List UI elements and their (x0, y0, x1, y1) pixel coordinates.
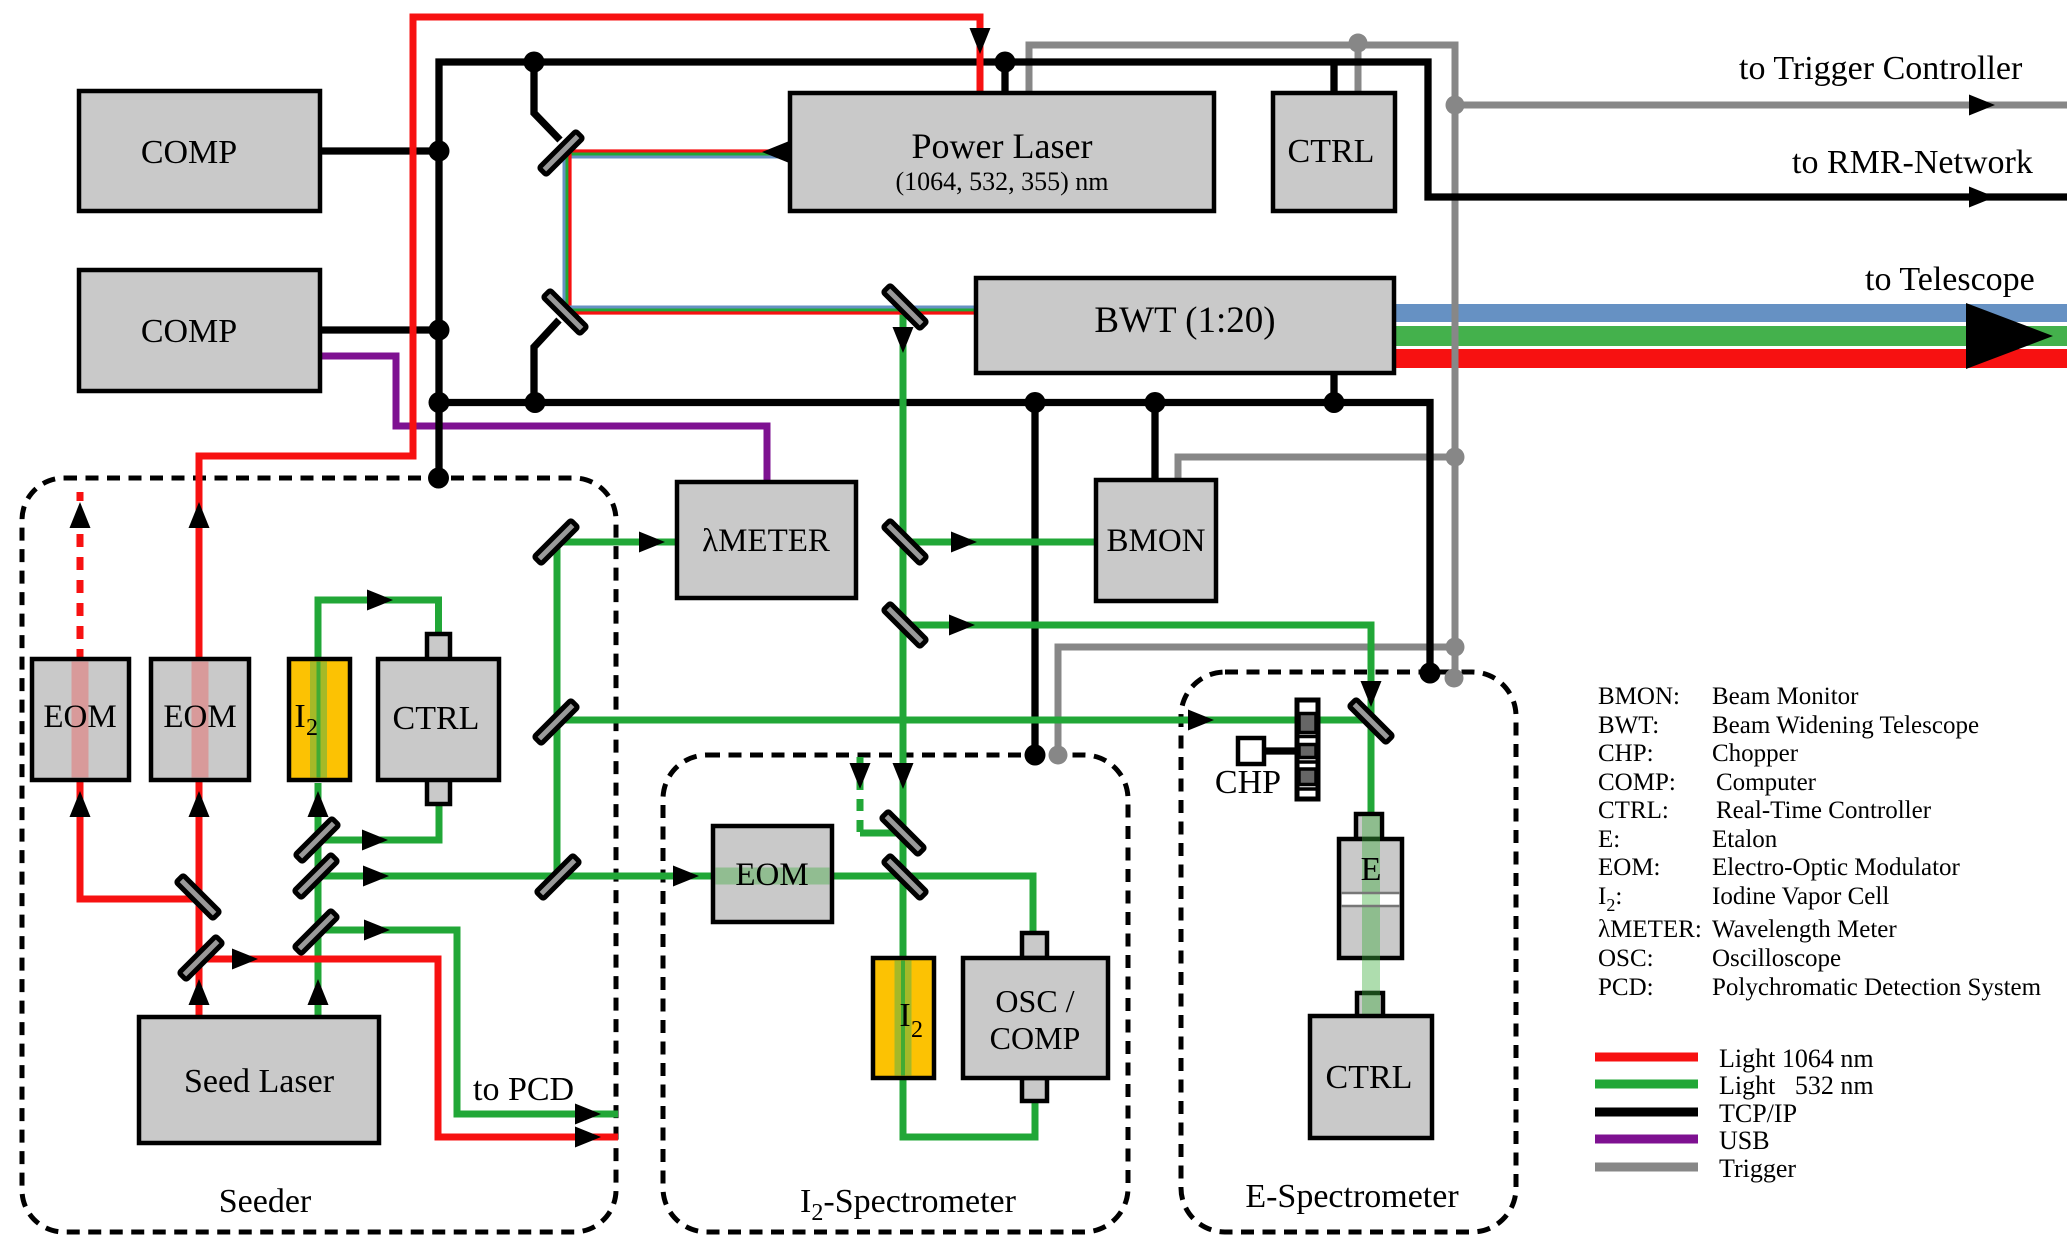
svg-text:Wavelength Meter: Wavelength Meter (1712, 916, 1897, 943)
svg-text:COMP:: COMP: (1598, 769, 1676, 796)
big arrow to Telescope (1966, 303, 2053, 369)
mirror M2 power laser lower (543, 290, 587, 334)
junction lower bus left (429, 392, 450, 413)
svg-text:COMP: COMP (141, 313, 237, 350)
beam bundle green top (562, 153, 790, 156)
TCP/IP main bus (439, 62, 2067, 480)
arrow down into I2-Spectrometer solid (893, 763, 914, 789)
svg-text:TCP/IP: TCP/IP (1719, 1099, 1797, 1128)
arrow down into I2-Spectrometer dashed (850, 763, 871, 789)
green beam BWT mirror down to I2 cell (900, 308, 907, 965)
CTRL seeder box with tabs (378, 634, 499, 804)
svg-text:EOM: EOM (163, 699, 236, 735)
beam to Telescope green band (1394, 326, 2067, 346)
junction COMP2 on bus (429, 320, 450, 341)
wire stub I2-Spectrometer (1031, 402, 1038, 757)
arrow red up to leave seeder (189, 502, 210, 528)
green beam to E-Spectrometer etalon line (905, 625, 1371, 722)
arrow up green from Seed Laser (308, 979, 329, 1005)
svg-text:Beam Monitor: Beam Monitor (1712, 683, 1859, 710)
mirror M1 power laser upper (539, 131, 583, 175)
USB wire COMP2 to lambdaMETER (320, 356, 767, 485)
mirror M4 BMON pickoff (883, 520, 927, 564)
arrow right red PCD line (232, 949, 258, 970)
beam bundle green riser (566, 151, 569, 311)
green beam to E-Spectrometer chopper (556, 720, 1371, 818)
arrow right into BMON (951, 532, 977, 553)
Seeder dashed enclosure (22, 478, 616, 1232)
svg-text:Oscilloscope: Oscilloscope (1712, 945, 1841, 972)
wire COMP1 to bus (320, 147, 439, 154)
svg-text:Power Laser: Power Laser (912, 126, 1093, 166)
svg-text:(1064, 532, 355) nm: (1064, 532, 355) nm (895, 167, 1108, 196)
arrow right to RMR-Network (1969, 187, 1995, 208)
I2 iodine cell spectrometer (873, 958, 934, 1078)
mirror M16 E-Spectrometer (1349, 699, 1393, 743)
svg-text:OSC /: OSC / (995, 983, 1074, 1019)
arrow down into Power Laser (970, 28, 991, 54)
junction trigger to BMON (1446, 448, 1465, 467)
mirror M9 seeder CTRL pickoff (295, 818, 339, 862)
BMON box (1096, 480, 1216, 601)
mirror M14 I2-Spectrometer upper (881, 811, 925, 855)
svg-text:2: 2 (911, 1017, 923, 1043)
wire stub BWT (1330, 370, 1337, 402)
svg-text:USB: USB (1719, 1126, 1770, 1155)
mirror M6 lambdaMETER feed (534, 520, 578, 564)
mirror M7 E-Spectrometer feed (534, 700, 578, 744)
Seed Laser box (139, 1017, 379, 1143)
svg-text:to Telescope: to Telescope (1865, 261, 2035, 298)
beam bundle blue top (562, 156, 790, 159)
green I2 cell to OSC/COMP bottom (903, 1075, 1035, 1137)
node trigger at E-Spectrometer border (1445, 669, 1464, 688)
arrow right red to PCD (575, 1127, 601, 1148)
green stub dashed pickoff to mirror (860, 830, 897, 837)
mirror M3 BWT pickoff (883, 285, 927, 329)
beam bundle green into BWT (564, 309, 976, 312)
svg-text:I: I (294, 698, 305, 735)
trigger wire stub into CTRL (1355, 43, 1362, 95)
svg-text:Trigger: Trigger (1719, 1154, 1796, 1183)
svg-text:to RMR-Network: to RMR-Network (1792, 144, 2033, 181)
svg-text:Polychromatic Detection System: Polychromatic Detection System (1712, 974, 2042, 1001)
red seed laser vertical (196, 779, 203, 1020)
EOM2 box (151, 659, 249, 780)
svg-text:BMON:: BMON: (1598, 683, 1680, 710)
link CHP motor to wheel (1264, 747, 1302, 754)
red mirror to EOM1 (80, 779, 199, 899)
mirror M8 riser bottom (536, 855, 580, 899)
CTRL top box (1273, 93, 1395, 211)
E-Spectrometer dashed enclosure (1181, 672, 1516, 1232)
arrow right on E-line (949, 615, 975, 636)
green dashed pickoff in I2-Spectrometer (857, 757, 864, 833)
green I2 cell top to CTRL top (318, 600, 439, 662)
computer COMP2 (79, 270, 320, 391)
svg-text:OSC:: OSC: (1598, 945, 1654, 972)
green riser between mirrors (554, 545, 561, 876)
junction mirror M1 mount on bus (524, 52, 545, 73)
trigger wire branch to BMON (1178, 457, 1455, 484)
arrow right green main line (363, 866, 389, 887)
svg-text:Iodine Vapor Cell: Iodine Vapor Cell (1712, 883, 1889, 910)
svg-text:Etalon: Etalon (1712, 826, 1778, 853)
green beam into lambdaMETER (556, 539, 680, 546)
arrow right green PCD line (364, 920, 390, 941)
chopper wheel (1297, 700, 1318, 799)
svg-text:BWT:: BWT: (1598, 712, 1659, 739)
mirror M15 I2-Spectrometer lower (883, 855, 927, 899)
green mirror to CTRL bottom (317, 798, 439, 840)
arrow right green CTRL top line (367, 590, 393, 611)
svg-text:Seeder: Seeder (219, 1183, 312, 1220)
arrow into mirror M1 from Power Laser (762, 142, 788, 163)
svg-text:Chopper: Chopper (1712, 740, 1799, 767)
svg-text:CTRL: CTRL (393, 700, 480, 737)
green long beam to I2-Spectrometer EOM (316, 873, 714, 880)
arrow right into I2-Spectrometer EOM (673, 866, 699, 887)
svg-text:EOM: EOM (735, 857, 808, 893)
node TCP/IP at I2-Spectrometer border (1025, 745, 1046, 766)
junction mirror M2 mount on lower bus (525, 392, 546, 413)
beam bundle blue riser (563, 151, 566, 311)
lambdaMETER box (677, 482, 856, 598)
svg-text:E-Spectrometer: E-Spectrometer (1245, 1178, 1459, 1215)
svg-text:CTRL: CTRL (1288, 133, 1375, 170)
wire COMP2 to bus (320, 326, 439, 333)
beam to Telescope red band (1394, 349, 2067, 368)
etalon E with tab (1339, 814, 1402, 991)
mirror M13 red PCD pickoff (179, 936, 223, 980)
EOM I2-Spectrometer (713, 826, 832, 922)
svg-text:to Trigger Controller: to Trigger Controller (1739, 50, 2023, 87)
BWT box (976, 278, 1394, 373)
arrow right to Trigger Controller (1969, 95, 1995, 116)
computer COMP1 (79, 91, 320, 211)
beam bundle red into BWT (564, 311, 976, 314)
mirror M12 red to EOM1 (176, 875, 220, 919)
beam to Telescope blue band (1394, 304, 2067, 322)
legend abbreviation list (1598, 683, 2042, 1001)
junction trigger to I2-Spectrometer (1446, 638, 1465, 657)
arrow up into seeder I2 (308, 791, 329, 817)
arrow up red from Seed Laser (189, 979, 210, 1005)
svg-text:E:: E: (1598, 826, 1620, 853)
svg-text:PCD:: PCD: (1598, 974, 1654, 1001)
svg-text:λMETER: λMETER (702, 523, 830, 559)
I2 iodine cell seeder (289, 659, 350, 780)
red beam to PCD (201, 959, 618, 1137)
beam bundle red riser (568, 151, 571, 311)
svg-text:COMP: COMP (141, 134, 237, 171)
svg-text:Electro-Optic Modulator: Electro-Optic Modulator (1712, 854, 1961, 881)
arrow right into E-Spectrometer (1188, 710, 1214, 731)
junction trigger at CTRL (1349, 34, 1368, 53)
svg-text:BMON: BMON (1106, 523, 1205, 559)
red seed to EOM2 and Power Laser (199, 17, 980, 662)
svg-text:Light 1064 nm: Light 1064 nm (1719, 1044, 1874, 1073)
svg-text:Real-Time Controller: Real-Time Controller (1716, 797, 1932, 824)
junction COMP1 on bus (429, 141, 450, 162)
node trigger at I2-Spectrometer border (1049, 746, 1068, 765)
svg-text:COMP: COMP (990, 1020, 1081, 1056)
junction BMON stub on lower bus (1145, 392, 1166, 413)
green mirror to PCD (316, 930, 618, 1114)
red dashed above EOM1 (77, 492, 84, 662)
wire stub CTRL (1330, 62, 1337, 96)
svg-text:CHP:: CHP: (1598, 740, 1654, 767)
svg-text:E: E (1361, 851, 1382, 888)
mount of mirror M2 (534, 320, 559, 402)
green seed laser vertical through mirrors to I2 cell (315, 783, 322, 1020)
svg-text:EOM:: EOM: (1598, 854, 1661, 881)
trigger wire branch to I2-Spectrometer (1058, 647, 1455, 757)
arrow up into EOM1 (70, 791, 91, 817)
node TCP/IP at Seeder border (428, 468, 449, 489)
green EOM to OSC/COMP top (830, 876, 1033, 940)
junction trigger to Trigger Controller (1446, 96, 1465, 115)
svg-text:CTRL:: CTRL: (1598, 797, 1669, 824)
svg-text:EOM: EOM (43, 699, 116, 735)
TCP/IP lower bus (439, 403, 1430, 676)
trigger wire to Trigger Controller (1455, 102, 2067, 109)
beam bundle red top (562, 149, 790, 152)
wire stub Power Laser (1001, 62, 1008, 96)
arrow right into lambdaMETER (639, 532, 665, 553)
CHP chopper motor (1215, 738, 1281, 801)
beam bundle blue into BWT (564, 306, 976, 309)
svg-text:Computer: Computer (1716, 769, 1817, 796)
legend line samples (1595, 1053, 1698, 1062)
svg-text:2: 2 (306, 715, 318, 741)
svg-text:to PCD: to PCD (473, 1071, 574, 1108)
svg-text:I: I (899, 997, 910, 1034)
svg-text:Seed Laser: Seed Laser (184, 1063, 335, 1100)
junction BWT stub on lower bus (1324, 392, 1345, 413)
mount of mirror M1 (534, 62, 560, 140)
svg-text:CTRL: CTRL (1326, 1059, 1413, 1096)
arrow down on BWT pickoff (893, 327, 914, 353)
arrow red dashed up (70, 502, 91, 528)
I2-Spectrometer dashed enclosure (663, 755, 1128, 1232)
junction I2-Spectrometer stub on lower bus (1025, 392, 1046, 413)
wire stub BMON (1151, 402, 1158, 484)
arrow up into EOM2 (189, 791, 210, 817)
junction Power Laser on bus (995, 52, 1016, 73)
svg-text:I2-Spectrometer: I2-Spectrometer (800, 1183, 1017, 1226)
svg-text:CHP: CHP (1215, 764, 1281, 801)
svg-text:Beam Widening Telescope: Beam Widening Telescope (1712, 712, 1979, 739)
mirror M5 E-line pickoff (883, 603, 927, 647)
EOM1 box (32, 659, 129, 780)
arrow right green CTRL bottom line (362, 830, 388, 851)
svg-text:λMETER:: λMETER: (1598, 916, 1702, 943)
arrow right green to PCD (575, 1104, 601, 1125)
mirror M11 seeder PCD pickoff (294, 910, 338, 954)
CTRL E-Spectrometer with tab (1310, 991, 1432, 1138)
Power Laser box (790, 93, 1214, 211)
svg-text:Light 532 nm: Light 532 nm (1719, 1071, 1874, 1100)
green beam into BMON (905, 539, 1098, 546)
svg-text:BWT (1:20): BWT (1:20) (1094, 300, 1275, 341)
OSC/COMP box with tabs (963, 933, 1108, 1101)
node TCP/IP at E-Spectrometer border (1420, 663, 1441, 684)
trigger wire main: Power Laser to top bus, down right side to E-Spectrometer (1029, 45, 1455, 675)
arrow down to E-Spectrometer mirror (1361, 681, 1382, 707)
mirror M10 seeder main pickoff (294, 854, 338, 898)
